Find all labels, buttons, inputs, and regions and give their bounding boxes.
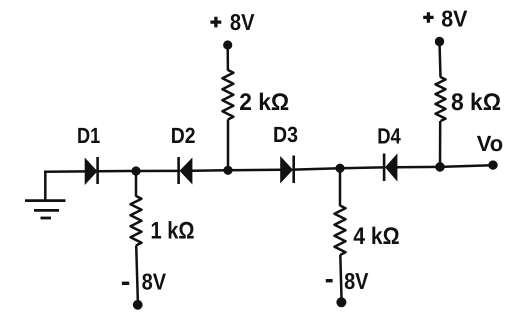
wire R4 to node 4 [439, 121, 442, 167]
wire R2 to node 2 [227, 120, 230, 171]
svg-text:2 kΩ: 2 kΩ [239, 89, 289, 116]
label + (right +8V) [423, 12, 433, 23]
wire node 4 to output Vo [440, 165, 492, 167]
node 2 junction [223, 166, 232, 175]
resistor R4 8k zigzag [436, 77, 446, 121]
wire node 2 to D3 anode [228, 169, 282, 172]
wire R1 to -8V terminal [136, 246, 138, 301]
node 4 junction [435, 162, 445, 172]
wire D1 cathode to node 1 [98, 170, 136, 173]
wire +8V terminal to R2 [226, 45, 229, 71]
label minus (left -8V) [122, 282, 129, 285]
wire R3 to -8V terminal [340, 255, 341, 298]
svg-text:8V: 8V [344, 268, 369, 294]
svg-text:8V: 8V [441, 5, 468, 31]
svg-text:8V: 8V [230, 9, 255, 35]
resistor R2 2k zigzag [222, 70, 233, 120]
diode D3 [281, 156, 294, 184]
wire node 3 down to R3 [339, 168, 342, 206]
diode D1 [86, 157, 98, 184]
diode D2 [179, 157, 192, 184]
wire +8V terminal to R4 [440, 42, 441, 78]
wire node 1 to D2 cathode [136, 170, 179, 173]
node 3 junction [335, 164, 344, 173]
svg-text:Vo: Vo [477, 131, 503, 156]
node 1 junction [131, 166, 140, 175]
svg-text:D4: D4 [377, 123, 401, 148]
wire D3 cathode to node 3 [294, 168, 340, 169]
wire node 3 to D4 cathode [340, 166, 384, 169]
svg-text:4 kΩ: 4 kΩ [353, 223, 400, 250]
svg-text:D1: D1 [77, 123, 100, 148]
wire D2 anode to node 2 [192, 169, 228, 172]
svg-text:8V: 8V [142, 268, 167, 294]
terminal +8V left dot [223, 40, 232, 49]
resistor R1 1k zigzag [131, 196, 142, 246]
terminal -8V left dot [133, 300, 143, 310]
wire D4 anode to node 4 [397, 166, 440, 169]
ground [25, 172, 66, 218]
svg-text:D3: D3 [273, 122, 298, 147]
label + (left +8V) [210, 17, 221, 28]
label minus (right -8V) [326, 279, 333, 282]
output terminal Vo [488, 160, 497, 169]
wire node 1 down to R1 [135, 171, 138, 197]
svg-text:D2: D2 [171, 123, 196, 148]
terminal +8V right dot [435, 37, 444, 46]
resistor R3 4k zigzag [335, 206, 346, 256]
terminal -8V right dot [336, 297, 346, 307]
diode D4 [384, 154, 397, 182]
svg-text:8 kΩ: 8 kΩ [451, 89, 501, 116]
wire ground to D1 anode [44, 170, 87, 173]
svg-text:1 kΩ: 1 kΩ [151, 217, 195, 244]
